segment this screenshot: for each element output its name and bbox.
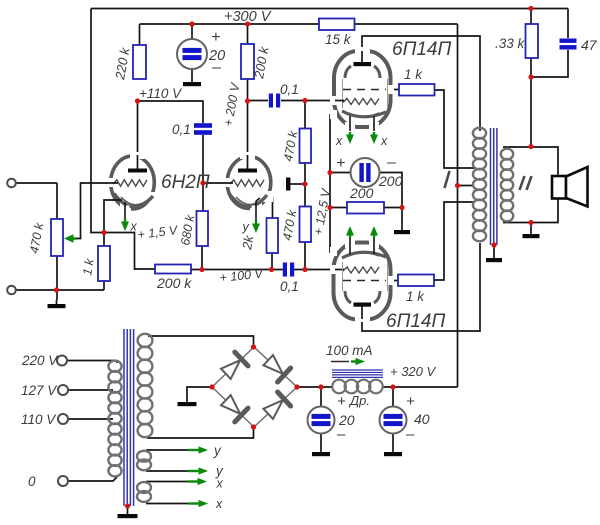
resistor R12 200 cathode	[347, 202, 384, 214]
wire V3 screen resistor lead	[383, 280, 398, 282]
svg-text:–: –	[405, 426, 415, 443]
svg-text:y: y	[242, 220, 250, 234]
diode D2 bridge upper-right	[254, 347, 297, 387]
ground PT core	[118, 514, 138, 518]
wire triode V1a plate lead	[137, 101, 139, 170]
resistor R3 200k anode	[241, 44, 254, 79]
label 47	[581, 37, 598, 53]
diode D3 bridge lower-left	[212, 387, 254, 427]
capacitor C3 0.1 coupling	[283, 263, 294, 277]
label +110V	[139, 86, 183, 101]
input terminal bottom	[7, 286, 16, 295]
label 0	[28, 474, 36, 489]
label 15k	[325, 32, 352, 47]
resistor R10 1k screen top	[399, 84, 435, 96]
heater arrow V3 right	[370, 226, 378, 238]
screen grid V3 dashed	[343, 280, 386, 282]
label y2	[215, 464, 224, 479]
svg-text:47: 47	[581, 37, 598, 53]
heater leads V2	[350, 116, 374, 131]
resistor R7 2k	[267, 218, 279, 253]
svg-text:.33 k: .33 k	[495, 36, 526, 51]
wire bridge left to gnd	[187, 387, 212, 402]
capacitor C7 20uF psu	[308, 407, 335, 434]
wire OT center tap	[458, 185, 475, 187]
label 0,1 first	[172, 122, 191, 137]
resistor R9 15k	[319, 19, 355, 31]
wire chassis tap	[290, 183, 305, 185]
label 100mA	[326, 343, 373, 358]
wire PT primary top	[116, 361, 118, 364]
wire secondary bottom	[503, 198, 558, 223]
heater arrow x V2 right	[370, 132, 378, 144]
resistor R1 220k	[133, 45, 146, 79]
svg-text:+300 V: +300 V	[224, 9, 272, 25]
cathode V1a	[112, 194, 153, 207]
label cap20 plus	[211, 29, 220, 46]
tube V3 pentode 6P14P bottom envelope	[330, 240, 394, 322]
wire V3 cathode rise	[330, 208, 344, 253]
wire V3 screen to tap	[435, 202, 475, 280]
wire cathode node verticals	[329, 173, 331, 208]
label 470k lower	[280, 208, 299, 241]
label I primary	[445, 171, 450, 188]
power transformer primary winding	[108, 361, 121, 477]
terminal 220V	[57, 356, 67, 366]
wire 470k chain middle	[304, 163, 306, 207]
svg-text:6Н2П: 6Н2П	[161, 172, 210, 193]
wire V3 plate to OT bottom	[362, 243, 480, 331]
anode plate V3	[354, 303, 372, 320]
label II secondary	[520, 176, 532, 190]
heater lead V1a	[121, 202, 130, 219]
wire C2 to V2 grid	[281, 100, 341, 102]
wire 127V lead	[68, 389, 114, 391]
svg-text:y: y	[213, 443, 222, 458]
label 110V	[21, 412, 57, 427]
label 220V	[21, 353, 59, 368]
label +12,5V	[311, 186, 333, 236]
beam plates V3	[343, 262, 388, 303]
ground OT core	[486, 258, 502, 262]
wire input top	[16, 183, 58, 219]
anode plate V1b	[238, 155, 257, 173]
svg-text:+: +	[336, 155, 345, 172]
output transformer secondary winding	[501, 149, 513, 222]
svg-text:+: +	[211, 29, 220, 46]
grid V1a	[106, 180, 147, 186]
resistor R14 .33k feedback	[526, 24, 539, 58]
cathode V3	[342, 252, 386, 258]
svg-text:1 k: 1 k	[404, 67, 423, 82]
svg-text:127 V: 127 V	[21, 383, 58, 398]
svg-text:1 k: 1 k	[80, 257, 97, 277]
grid V1b	[224, 180, 264, 186]
svg-text:+: +	[337, 393, 346, 410]
beam plates V2	[343, 66, 388, 108]
label cap200 minus	[386, 154, 396, 171]
label +1,5V	[137, 223, 180, 242]
svg-text:x: x	[380, 134, 388, 148]
wire choke to cap40	[382, 386, 458, 388]
wire ecap200 left	[330, 172, 351, 174]
wire heater x1 lead	[146, 481, 192, 483]
label 1k cathode	[80, 257, 97, 277]
label 0,1 third	[280, 279, 299, 294]
label 200 right	[378, 173, 403, 189]
node +110V wire	[138, 101, 204, 123]
svg-text:–: –	[211, 59, 221, 76]
wire 2k bottom	[271, 253, 273, 270]
choke Dr winding	[332, 380, 382, 394]
ground cap40 psu	[384, 452, 402, 456]
terminal 110V	[58, 414, 68, 424]
svg-text:220 V: 220 V	[21, 353, 59, 368]
label 470k upper	[281, 129, 300, 162]
svg-text:x: x	[216, 477, 224, 491]
wire B+ vertical to +320V	[457, 24, 459, 387]
resistor R8 200k grid leak	[155, 265, 191, 274]
svg-text:+ 320 V: + 320 V	[390, 364, 437, 379]
label cap20psu plus	[337, 393, 346, 410]
wire secondary top	[503, 147, 558, 176]
label 1k top	[404, 67, 423, 82]
label cap20psu value	[338, 412, 355, 428]
resistor R6 470k lower	[300, 207, 312, 243]
arrow 100mA	[331, 358, 365, 365]
wire PT core gnd	[127, 506, 129, 514]
capacitor C2 0.1 coupling	[269, 94, 280, 108]
svg-text:200 k: 200 k	[156, 275, 192, 291]
ground cap20 psu	[312, 452, 330, 456]
svg-text:6П14П: 6П14П	[392, 39, 451, 60]
svg-text:+110 V: +110 V	[139, 86, 183, 101]
cathode V2	[342, 111, 386, 117]
wire heater x2 lead	[146, 503, 192, 505]
svg-text:100 mA: 100 mA	[326, 343, 373, 358]
arrow heater y2	[188, 467, 208, 474]
label x heater V1a	[130, 220, 138, 234]
wire grid line bottom tube	[191, 269, 342, 271]
label x V2 left	[335, 134, 343, 148]
wire V1a grid from pot wiper	[74, 183, 118, 239]
wire V1b plate lead	[247, 101, 249, 170]
capacitor C4 20uF electrolytic	[177, 39, 207, 69]
capacitor C5 200uF cathode	[351, 158, 380, 187]
wire 47 cap branch	[531, 9, 568, 78]
wire V2 screen to tap	[435, 90, 475, 168]
wire input bottom	[16, 281, 105, 290]
label x2	[215, 497, 223, 511]
wire speaker gnd stem	[530, 223, 532, 235]
wire 220V lead	[67, 360, 118, 362]
wire cap40 stems	[392, 387, 394, 452]
label Dr	[348, 393, 370, 408]
chassis bar splitter	[286, 178, 290, 191]
output transformer primary winding	[473, 128, 486, 242]
wire feedback to secondary	[530, 77, 532, 147]
tube V2 pentode 6P14P top envelope	[330, 47, 394, 130]
wire feedback top line	[91, 8, 568, 10]
ground ecap20	[183, 82, 201, 86]
wire cap20psu stems	[320, 387, 322, 452]
heater arrow V3 left	[346, 226, 354, 238]
wire 470k chain bottom	[304, 242, 306, 270]
ground input	[48, 300, 66, 308]
label 200k bottom	[156, 275, 192, 291]
wire HV bottom to bridge	[147, 427, 254, 438]
wire V1a cathode	[104, 200, 122, 246]
label cap200 plus	[336, 155, 345, 172]
arrow heater x1	[187, 478, 207, 485]
svg-text:1 k: 1 k	[406, 289, 425, 304]
svg-text:6П14П: 6П14П	[386, 311, 445, 332]
choke Dr core	[332, 370, 383, 377]
label 200k anode	[251, 44, 272, 80]
tube V1b triode 6N2P second half envelope	[224, 152, 273, 212]
diode D1 bridge upper-left	[212, 347, 254, 387]
capacitor C6 47 feedback	[560, 39, 577, 50]
capacitor C1 0.1 coupling	[194, 123, 212, 135]
svg-text:0,1: 0,1	[280, 82, 299, 97]
wire bridge right to +320V	[297, 386, 333, 388]
label +200V	[221, 81, 243, 128]
terminal 0	[58, 476, 68, 486]
resistor R13 1k cathode	[98, 246, 110, 281]
cathode V1b	[229, 194, 267, 207]
label x1	[216, 477, 224, 491]
label +320V	[390, 364, 437, 379]
arrow heater x2	[188, 500, 208, 507]
capacitor C8 40uF psu	[380, 407, 407, 434]
svg-text:–: –	[336, 426, 346, 443]
pot wiper arrow	[64, 234, 76, 242]
screen grid V2 dashed	[343, 89, 386, 91]
svg-text:15 k: 15 k	[325, 32, 352, 47]
label cap40 minus	[405, 426, 415, 443]
wire pot bottom to gnd	[56, 256, 58, 300]
wire cathode R to 200k	[104, 233, 155, 270]
label x V2 right	[380, 134, 388, 148]
label 6P14P top	[392, 39, 451, 60]
heater arrow y V1b	[252, 220, 260, 233]
svg-text:40: 40	[414, 411, 430, 427]
label 6N2P	[161, 172, 210, 193]
svg-text:0: 0	[28, 474, 36, 489]
label cap20psu minus	[336, 426, 346, 443]
wire 220k branch	[139, 24, 141, 45]
wire 2k top from V1b cathode	[260, 198, 273, 218]
wire C1 to V1b grid	[202, 135, 204, 183]
terminal 127V	[58, 385, 68, 395]
node +200V wire	[248, 79, 269, 101]
wire feedback left drop to cathode node	[91, 9, 104, 233]
wire V1b grid node	[203, 183, 231, 211]
wire V2 screen resistor lead	[383, 89, 399, 91]
label +300V	[224, 9, 272, 25]
wire 0 lead	[68, 477, 118, 481]
heater lead V1b	[252, 201, 261, 221]
power transformer heater winding y	[137, 451, 151, 470]
input terminal top	[7, 179, 16, 188]
wire ecap20 stems	[191, 24, 193, 82]
ground bridge left	[178, 402, 197, 406]
label 6P14P bottom	[386, 311, 445, 332]
label 1k bottom	[406, 289, 425, 304]
label cap40 plus	[406, 393, 415, 410]
output transformer core	[491, 128, 497, 245]
wire 110V lead	[68, 418, 114, 420]
label y1	[213, 443, 222, 458]
wire .33k bottom	[530, 58, 532, 77]
potentiometer R2 470k	[51, 219, 63, 256]
heater arrow x V2 left	[346, 132, 354, 144]
svg-text:200: 200	[349, 185, 374, 201]
wire +300V rail	[140, 23, 458, 25]
tube V1a triode 6N2P first half envelope	[107, 152, 157, 212]
wire .33k top	[530, 9, 532, 25]
label cap40 value	[414, 411, 430, 427]
svg-text:x: x	[335, 134, 343, 148]
wire 200 res left	[330, 207, 347, 209]
svg-text:0,1: 0,1	[280, 279, 299, 294]
resistor R5 470k upper	[300, 129, 312, 164]
control grid V2	[335, 99, 379, 105]
wire OT core gnd	[493, 245, 495, 258]
ground cathode 200	[394, 230, 410, 234]
svg-text:200: 200	[378, 173, 403, 189]
speaker	[552, 167, 588, 207]
resistor R11 1k screen bottom	[398, 275, 434, 287]
label .33k	[495, 36, 526, 51]
power transformer core	[124, 329, 134, 506]
label 2k	[239, 233, 257, 252]
svg-text:110 V: 110 V	[21, 412, 57, 427]
wire heater y1 lead	[146, 449, 192, 451]
wire heater y2 lead	[146, 470, 192, 472]
wire V2 cathode drop	[330, 115, 344, 173]
anode plate V2	[354, 51, 372, 66]
label 680k	[178, 213, 197, 246]
heater leads V3	[350, 238, 374, 254]
label 0,1 second	[280, 82, 299, 97]
label +100V	[219, 266, 265, 285]
svg-text:0,1: 0,1	[172, 122, 191, 137]
svg-text:Др.: Др.	[348, 393, 370, 408]
wire HV top to bridge	[148, 336, 254, 347]
heater arrow x V1a	[121, 218, 129, 231]
arrow heater y1	[188, 446, 208, 453]
control grid V3	[335, 267, 379, 273]
svg-text:x: x	[215, 497, 223, 511]
label 220k	[112, 45, 133, 81]
label y heater V1b	[242, 220, 250, 234]
svg-text:+: +	[406, 393, 415, 410]
svg-text:–: –	[386, 154, 396, 171]
resistor R4 680k	[197, 211, 209, 246]
label 470k pot	[27, 221, 46, 254]
wire 470k chain top	[304, 101, 306, 129]
label 200 left	[349, 185, 374, 201]
ground speaker	[523, 234, 540, 238]
diode D4 bridge lower-right	[254, 387, 297, 427]
power transformer heater winding x	[137, 482, 151, 502]
wire 200 res right to gnd	[384, 208, 402, 231]
label cap20 value	[208, 48, 225, 64]
anode plate V1a	[128, 155, 147, 173]
wire V2 plate to OT top	[362, 36, 480, 131]
wire ecap200 right	[380, 173, 403, 208]
label 127V	[21, 383, 58, 398]
power transformer HV secondary winding	[138, 334, 153, 437]
label cap20 minus	[211, 59, 221, 76]
wire 680k bottom	[201, 246, 203, 270]
wire 200k anode2 top	[247, 24, 249, 44]
